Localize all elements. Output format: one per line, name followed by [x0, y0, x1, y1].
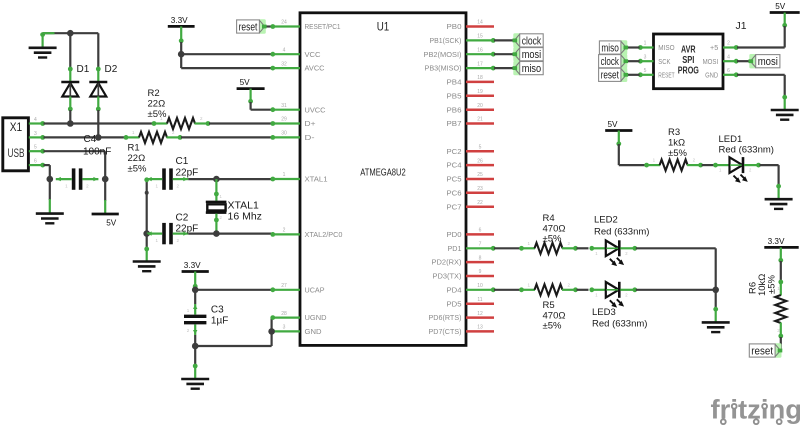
- svg-text:Red (633nm): Red (633nm): [594, 226, 649, 237]
- svg-text:5: 5: [34, 145, 37, 151]
- wire VCC: [181, 53, 272, 55]
- wire UCAP: [195, 289, 272, 291]
- svg-text:5V: 5V: [106, 218, 117, 227]
- svg-text:20: 20: [477, 103, 483, 109]
- svg-text:R2: R2: [148, 88, 160, 99]
- wire: [44, 165, 50, 179]
- svg-text:PROG: PROG: [678, 66, 699, 77]
- IC U1 ATMEGA8U2: [270, 13, 495, 346]
- svg-text:R3: R3: [668, 127, 680, 138]
- svg-text:4: 4: [34, 117, 37, 123]
- LED LED3: [589, 282, 647, 330]
- svg-text:SCK: SCK: [658, 59, 670, 66]
- node XTAL2: [213, 230, 220, 237]
- svg-text:19: 19: [477, 89, 483, 95]
- svg-text:R1: R1: [128, 143, 140, 154]
- svg-text:GND: GND: [705, 72, 718, 79]
- wire: [494, 39, 515, 41]
- svg-text:UCAP: UCAP: [305, 287, 325, 294]
- resistor R3: [644, 127, 703, 171]
- svg-text:MISO: MISO: [658, 45, 675, 52]
- svg-text:LED3: LED3: [592, 307, 616, 318]
- svg-text:XTAL2/PC0: XTAL2/PC0: [305, 232, 343, 239]
- wire: [494, 289, 521, 291]
- wire: [780, 337, 782, 351]
- svg-text:±5%: ±5%: [543, 234, 562, 245]
- svg-text:PB0: PB0: [447, 24, 462, 31]
- wire: [619, 144, 646, 165]
- svg-text:PB5: PB5: [447, 93, 462, 100]
- resistor R5: [519, 282, 578, 331]
- ground: [771, 95, 799, 120]
- node D1-Dplus: [67, 120, 74, 127]
- svg-text:C1: C1: [176, 156, 189, 167]
- wire: [636, 248, 716, 289]
- svg-text:reset: reset: [239, 21, 258, 33]
- node VCC: [178, 51, 185, 58]
- svg-text:PD3(TX): PD3(TX): [433, 274, 462, 281]
- svg-text:PC4: PC4: [447, 163, 462, 170]
- svg-text:D1: D1: [77, 64, 90, 75]
- LED LED2: [589, 215, 649, 267]
- ground: [765, 184, 793, 209]
- node D2-Dminus: [95, 134, 102, 141]
- connector X1 USB: [3, 117, 45, 171]
- svg-text:PB4: PB4: [447, 80, 462, 87]
- svg-text:PB3(MISO): PB3(MISO): [425, 66, 462, 73]
- svg-text:3: 3: [34, 131, 37, 137]
- svg-text:PC6: PC6: [447, 190, 462, 197]
- svg-text:25: 25: [477, 172, 483, 178]
- ground: [36, 179, 64, 223]
- wire: [494, 67, 515, 69]
- wire UVCC: [251, 102, 272, 110]
- svg-text:X1: X1: [10, 122, 23, 134]
- wire: [188, 233, 216, 235]
- wire: [577, 289, 589, 291]
- node LED-gnd: [712, 287, 719, 294]
- svg-text:PC5: PC5: [447, 177, 462, 184]
- svg-text:7: 7: [479, 242, 482, 248]
- wire: [494, 247, 521, 249]
- svg-text:13: 13: [477, 325, 483, 331]
- net flag reset: [599, 68, 629, 82]
- svg-text:PD1: PD1: [448, 246, 462, 253]
- wire: [97, 110, 99, 137]
- svg-text:XTAL1: XTAL1: [305, 177, 328, 184]
- svg-text:Red (633nm): Red (633nm): [592, 318, 647, 329]
- wire XTAL1: [216, 178, 272, 180]
- svg-text:USB: USB: [8, 148, 25, 160]
- svg-text:clock: clock: [601, 56, 620, 68]
- svg-text:clock: clock: [522, 35, 542, 47]
- svg-text:PB6: PB6: [447, 107, 462, 114]
- wire: [760, 165, 779, 185]
- power 5V: [92, 179, 119, 227]
- svg-text:reset: reset: [601, 70, 619, 82]
- wire: [780, 261, 782, 281]
- wire: [209, 122, 272, 124]
- svg-text:2: 2: [727, 41, 730, 47]
- svg-text:SPI: SPI: [682, 55, 694, 66]
- node UGND-GND: [268, 328, 275, 335]
- svg-text:24: 24: [281, 20, 287, 26]
- diode D2: [89, 64, 117, 111]
- node ground-D1-D2: [67, 30, 74, 37]
- svg-text:miso: miso: [601, 42, 619, 54]
- capacitor C2: [147, 213, 199, 245]
- wire AVCC: [181, 54, 272, 68]
- svg-text:PD4: PD4: [447, 287, 462, 294]
- svg-text:U1: U1: [377, 20, 390, 34]
- power 3.3V: [182, 261, 209, 289]
- svg-text:±5%: ±5%: [668, 148, 687, 159]
- svg-text:RESET: RESET: [658, 72, 675, 79]
- wire GND: [271, 331, 273, 346]
- net flag clock: [513, 33, 544, 47]
- wire: [181, 136, 272, 138]
- wire: [737, 26, 785, 48]
- svg-text:23: 23: [477, 186, 483, 192]
- svg-text:ATMEGA8U2: ATMEGA8U2: [360, 167, 406, 178]
- ground: [133, 234, 161, 272]
- net flag clock: [599, 54, 629, 68]
- svg-text:RESET/PC1: RESET/PC1: [305, 24, 341, 31]
- ground: [181, 346, 209, 389]
- svg-text:PB1(SCK): PB1(SCK): [430, 38, 462, 45]
- svg-text:mosi: mosi: [758, 56, 778, 68]
- svg-text:5V: 5V: [775, 2, 786, 11]
- wire: [636, 289, 716, 291]
- connector J1 AVR SPI PROG: [638, 20, 747, 89]
- svg-text:22pF: 22pF: [176, 167, 199, 178]
- svg-text:PD5: PD5: [447, 301, 462, 308]
- wire: [627, 60, 640, 62]
- svg-text:6: 6: [479, 228, 482, 234]
- resistor R6: [748, 274, 787, 339]
- svg-text:10: 10: [477, 283, 483, 289]
- net flag mosi: [749, 54, 780, 68]
- svg-text:miso: miso: [522, 63, 542, 75]
- wire: [195, 335, 271, 346]
- svg-text:22Ω: 22Ω: [128, 153, 146, 164]
- wire XTAL2: [216, 233, 272, 235]
- svg-text:1: 1: [644, 41, 647, 47]
- wire D+: [44, 122, 154, 124]
- wire: [144, 177, 149, 233]
- svg-text:14: 14: [477, 20, 483, 26]
- wire: [97, 33, 99, 68]
- LED LED1: [713, 134, 774, 183]
- svg-text:±5%: ±5%: [148, 109, 167, 120]
- net flag mosi: [513, 47, 544, 61]
- svg-text:J1: J1: [736, 20, 747, 32]
- svg-text:16: 16: [477, 47, 483, 53]
- svg-text:28: 28: [281, 311, 287, 317]
- svg-text:mosi: mosi: [522, 49, 542, 61]
- svg-text:AVCC: AVCC: [305, 66, 325, 73]
- svg-text:C4: C4: [84, 134, 97, 145]
- wire VUSB: [44, 151, 106, 179]
- svg-text:21: 21: [477, 117, 483, 123]
- capacitor C1: [147, 156, 199, 190]
- svg-text:30: 30: [281, 131, 287, 137]
- svg-text:5: 5: [644, 68, 647, 74]
- svg-text:2: 2: [283, 228, 286, 234]
- wire: [188, 178, 216, 180]
- svg-text:AVR: AVR: [681, 45, 696, 56]
- net flag miso: [513, 61, 544, 75]
- wire: [737, 60, 751, 62]
- svg-text:4: 4: [727, 54, 730, 60]
- svg-text:1: 1: [283, 172, 286, 178]
- power 3.3V: [764, 237, 798, 263]
- svg-text:6: 6: [34, 159, 37, 165]
- wire: [265, 25, 273, 27]
- svg-text:Red (633nm): Red (633nm): [719, 144, 774, 155]
- svg-text:MOSI: MOSI: [703, 59, 719, 66]
- svg-text:PB7: PB7: [447, 121, 462, 128]
- svg-text:5V: 5V: [240, 78, 251, 87]
- svg-text:6: 6: [727, 68, 730, 74]
- svg-text:12: 12: [477, 311, 483, 317]
- resistor R2: [148, 88, 211, 129]
- ground: [702, 290, 730, 332]
- svg-text:D2: D2: [105, 64, 118, 75]
- svg-text:±5%: ±5%: [128, 164, 147, 175]
- svg-text:18: 18: [477, 75, 483, 81]
- resistor R1: [124, 130, 183, 175]
- svg-text:8: 8: [479, 255, 482, 261]
- node XTAL1: [213, 176, 220, 183]
- svg-text:GND: GND: [305, 329, 322, 336]
- svg-text:PB2(MOSI): PB2(MOSI): [424, 52, 462, 59]
- svg-text:3.3V: 3.3V: [184, 261, 201, 270]
- ground: [29, 32, 57, 57]
- svg-text:22: 22: [477, 200, 483, 206]
- logo fritzing: [711, 395, 800, 425]
- svg-text:15: 15: [477, 34, 483, 40]
- svg-text:±5%: ±5%: [767, 275, 778, 294]
- svg-text:26: 26: [477, 158, 483, 164]
- wire: [737, 75, 785, 96]
- diode D1: [61, 64, 89, 111]
- wire: [494, 53, 515, 55]
- svg-text:LED2: LED2: [594, 215, 618, 226]
- svg-text:PC2: PC2: [447, 149, 462, 156]
- svg-text:PD2(RX): PD2(RX): [432, 260, 462, 267]
- svg-text:3: 3: [644, 54, 647, 60]
- power 3.3V: [168, 16, 195, 43]
- capacitor C3: [184, 290, 228, 335]
- svg-text:11: 11: [477, 297, 482, 303]
- svg-text:D-: D-: [305, 135, 316, 142]
- svg-text:31: 31: [281, 103, 287, 109]
- node C4-right: [102, 176, 109, 183]
- svg-text:+5: +5: [710, 45, 718, 52]
- svg-text:9: 9: [479, 269, 482, 275]
- net flag miso: [599, 40, 628, 54]
- power 5V: [605, 120, 632, 146]
- svg-text:±5%: ±5%: [543, 321, 562, 332]
- svg-text:5: 5: [479, 144, 482, 150]
- svg-text:3.3V: 3.3V: [171, 16, 188, 25]
- node UCAP: [192, 287, 199, 294]
- svg-text:UVCC: UVCC: [305, 107, 326, 114]
- svg-text:D+: D+: [305, 121, 316, 128]
- svg-text:5V: 5V: [607, 120, 618, 129]
- svg-text:VCC: VCC: [305, 52, 321, 59]
- svg-text:1µF: 1µF: [211, 315, 228, 326]
- node C3-bottom: [192, 343, 199, 350]
- resistor R4: [519, 213, 578, 254]
- power 5V: [770, 2, 800, 28]
- power 5V: [237, 78, 265, 104]
- net flag reset: [237, 19, 267, 33]
- svg-text:PD6(RTS): PD6(RTS): [429, 315, 462, 322]
- svg-text:27: 27: [281, 283, 287, 289]
- svg-text:UGND: UGND: [305, 315, 327, 322]
- wire: [627, 74, 640, 76]
- svg-text:PC7: PC7: [447, 204, 462, 211]
- crystal XTAL1: [206, 179, 262, 234]
- svg-text:C2: C2: [176, 213, 189, 224]
- wire: [577, 247, 589, 249]
- wire D-: [44, 136, 126, 138]
- svg-text:3: 3: [283, 325, 286, 331]
- wire: [627, 46, 640, 48]
- wire: [43, 32, 99, 34]
- svg-text:100nF: 100nF: [83, 147, 111, 158]
- svg-text:17: 17: [477, 61, 483, 67]
- wire UGND: [271, 318, 274, 332]
- wire: [702, 164, 714, 166]
- svg-text:29: 29: [281, 117, 287, 123]
- svg-text:PD0: PD0: [447, 232, 462, 239]
- svg-text:32: 32: [281, 61, 287, 67]
- svg-text:16 Mhz: 16 Mhz: [228, 210, 262, 222]
- svg-text:3.3V: 3.3V: [768, 237, 785, 246]
- svg-text:4: 4: [283, 47, 286, 53]
- svg-text:22Ω: 22Ω: [148, 99, 166, 110]
- wire: [69, 33, 71, 68]
- node C2-left: [143, 230, 150, 237]
- svg-text:PD7(CTS): PD7(CTS): [429, 329, 462, 336]
- svg-text:C3: C3: [211, 305, 224, 316]
- node C4-left: [47, 176, 54, 183]
- wire: [69, 110, 71, 124]
- svg-text:reset: reset: [751, 345, 773, 357]
- wire: [180, 42, 182, 54]
- capacitor C4: [56, 134, 112, 190]
- net flag reset: [749, 343, 782, 357]
